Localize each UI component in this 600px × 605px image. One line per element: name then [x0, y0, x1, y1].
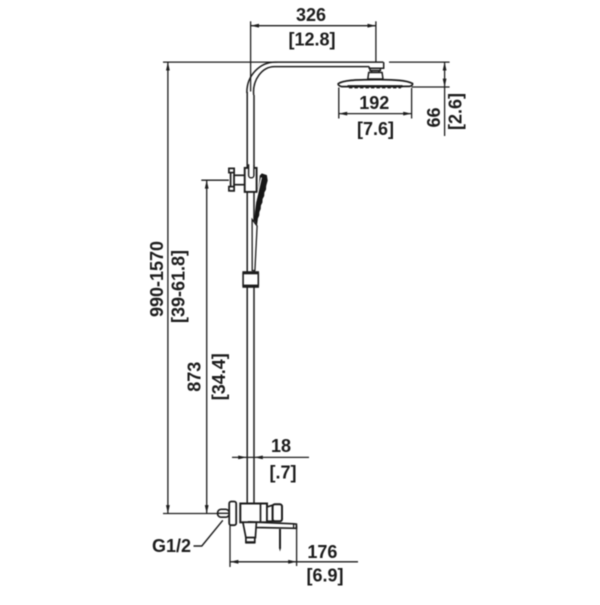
- dim 66: [389, 62, 450, 136]
- dim 990-1570: [163, 62, 277, 513]
- dim 192: [339, 88, 412, 119]
- diverter outlet: [243, 522, 257, 537]
- rain shower head: [338, 80, 412, 87]
- head connector: [368, 68, 383, 79]
- svg-text:[7.6]: [7.6]: [357, 119, 394, 139]
- holder flange: [229, 168, 234, 190]
- dim 326: [251, 21, 376, 91]
- leader line: [194, 520, 223, 546]
- valve body: [240, 504, 267, 523]
- riser pipe: [247, 92, 254, 504]
- dim 873: [201, 180, 229, 513]
- svg-text:192: 192: [359, 93, 389, 113]
- shower arm: [247, 62, 384, 95]
- dim 176: [230, 526, 358, 568]
- svg-text:18: 18: [271, 436, 291, 456]
- svg-text:326: 326: [296, 5, 326, 25]
- svg-text:[34.4]: [34.4]: [209, 353, 229, 400]
- lever handle: [273, 504, 282, 521]
- cartridge divider: [260, 504, 262, 523]
- svg-text:[6.9]: [6.9]: [306, 565, 343, 585]
- spout: [250, 522, 296, 528]
- slider block: [242, 271, 259, 273]
- svg-text:176: 176: [307, 542, 337, 562]
- svg-text:[.7]: [.7]: [270, 462, 297, 482]
- arm end cap: [369, 62, 384, 68]
- water stream: [279, 529, 281, 549]
- svg-text:873: 873: [184, 362, 204, 392]
- handle neck: [267, 505, 273, 521]
- holder arm: [234, 175, 245, 184]
- holder block: [245, 168, 257, 192]
- wall escutcheon: [229, 502, 236, 526]
- spray face: [348, 85, 403, 87]
- hand shower highlight: [256, 178, 262, 202]
- hand shower: [254, 173, 268, 226]
- inlet fitting G1/2: [218, 509, 230, 517]
- svg-text:[2.6]: [2.6]: [445, 93, 465, 130]
- svg-text:[12.8]: [12.8]: [288, 30, 335, 50]
- svg-text:66: 66: [424, 107, 444, 127]
- dim 18: [232, 456, 309, 458]
- svg-text:[39-61.8]: [39-61.8]: [169, 250, 189, 323]
- hand shower handle: [252, 220, 257, 271]
- spray nozzles: [349, 87, 401, 89]
- holder slot: [249, 164, 254, 178]
- svg-text:G1/2: G1/2: [152, 536, 191, 556]
- svg-text:990-1570: 990-1570: [147, 241, 167, 317]
